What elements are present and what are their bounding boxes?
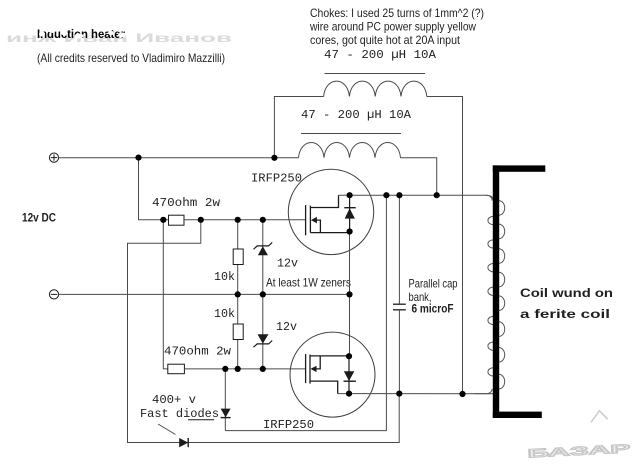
wire choke L2 right to drain bus	[400, 158, 436, 196]
svg-text:12v: 12v	[277, 257, 298, 271]
svg-text:470ohm 2w: 470ohm 2w	[164, 345, 232, 359]
wire branch to R2	[163, 220, 168, 369]
underline L2	[301, 133, 401, 135]
wire minus rail	[59, 293, 350, 295]
zener D1	[254, 242, 273, 255]
resistor R2 470ohm	[168, 364, 185, 374]
diode D3 fast	[221, 409, 231, 418]
wire zener D1	[262, 220, 264, 295]
wire 10k lower	[237, 294, 239, 369]
bazar watermark	[525, 409, 630, 460]
body diode Q2	[344, 356, 356, 393]
wire cap top	[398, 195, 400, 303]
underline diodes	[188, 419, 214, 421]
diode D4 fast	[179, 438, 188, 447]
wire choke L1 left	[274, 97, 323, 158]
svg-text:cores, got quite hot at 20A in: cores, got quite hot at 20A input	[310, 33, 461, 47]
chokes note	[309, 6, 484, 47]
ferrite bar	[493, 165, 499, 418]
svg-text:Fast diodes: Fast diodes	[140, 407, 219, 421]
transistor Q1 symbol	[306, 195, 350, 235]
svg-text:a ferite coil: a ferite coil	[520, 307, 610, 321]
underline L1	[325, 73, 426, 75]
arrow Q2	[311, 366, 317, 372]
svg-text:10k: 10k	[214, 307, 235, 321]
resistor R4 10k	[233, 324, 243, 340]
svg-text:6 microF: 6 microF	[412, 302, 454, 316]
wire gate2 line	[184, 368, 305, 370]
op circle Q2	[290, 332, 375, 417]
terminal minus	[49, 290, 58, 299]
op circle Q1	[288, 169, 373, 254]
wire source Q1 to ground rail	[349, 232, 351, 357]
svg-text:470ohm 2w: 470ohm 2w	[152, 196, 221, 210]
wire feedback from gate1	[128, 220, 400, 443]
title	[37, 27, 126, 42]
wire feedback to gate2 top	[225, 195, 386, 430]
svg-text:47 - 200 µH 10A: 47 - 200 µH 10A	[301, 108, 412, 122]
label coil	[520, 286, 613, 321]
ferrite top arm	[493, 165, 546, 171]
resistor R3 10k	[233, 249, 243, 265]
svg-text:Coil wund on: Coil wund on	[520, 286, 613, 300]
leader line	[158, 424, 176, 435]
resistor R1 470ohm	[169, 215, 185, 225]
wire gate2 to diode D3	[224, 369, 226, 431]
wire cap bottom	[398, 310, 400, 394]
coil turns	[474, 195, 505, 393]
wire plus rail	[59, 157, 299, 159]
transistor Q2 symbol	[306, 354, 349, 394]
ferrite bottom arm	[493, 412, 542, 418]
svg-text:(All credits reserved to Vladi: (All credits reserved to Vladimiro Mazzi…	[37, 51, 225, 65]
wire 10k upper	[237, 220, 239, 295]
inductor choke L2	[299, 143, 401, 158]
inductor choke L1	[324, 81, 427, 96]
capacitor C1	[393, 304, 406, 310]
terminal plus	[49, 153, 58, 162]
wire drain bus bottom	[338, 393, 494, 395]
svg-text:Chokes: I used 25 turns of 1mm: Chokes: I used 25 turns of 1mm^2 (?)	[310, 6, 484, 20]
svg-text:47 - 200 µH 10A: 47 - 200 µH 10A	[324, 48, 437, 62]
wire choke L1 right	[427, 97, 463, 395]
svg-text:10k: 10k	[214, 270, 235, 284]
wire gate1 line	[184, 219, 306, 221]
wire plus drop to R1	[139, 158, 169, 220]
svg-text:12v DC: 12v DC	[22, 211, 56, 225]
wire drain bus top	[339, 195, 494, 200]
arrow Q1	[311, 217, 317, 223]
svg-text:400+ v: 400+ v	[152, 393, 196, 407]
svg-text:Parallel cap: Parallel cap	[409, 277, 458, 291]
svg-text:IRFP250: IRFP250	[251, 172, 302, 186]
zener D2	[254, 334, 273, 347]
label cap bank	[409, 277, 458, 316]
svg-text:wire around PC power supply ye: wire around PC power supply yellow	[309, 20, 476, 34]
svg-text:IRFP250: IRFP250	[263, 418, 314, 432]
svg-text:12v: 12v	[276, 320, 297, 334]
wire zener D2	[262, 294, 264, 369]
svg-text:At least 1W zeners: At least 1W zeners	[266, 276, 351, 290]
body diode Q1	[344, 195, 355, 231]
